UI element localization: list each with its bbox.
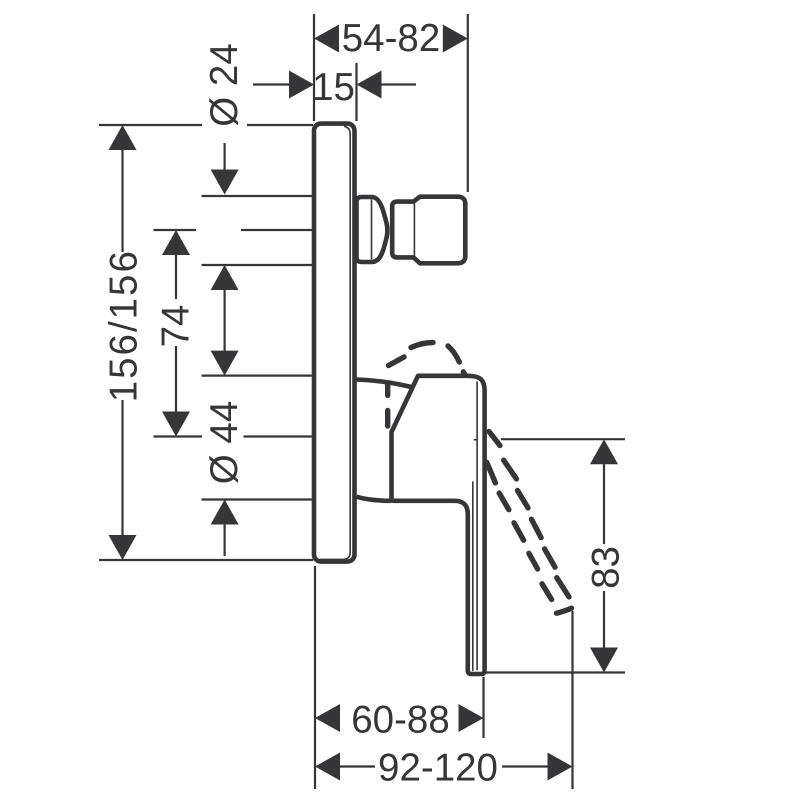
ext line handle center y436.5 [154,435,203,437]
arrow 74 bottom [162,412,190,437]
dim line d24-d44 middle [224,289,226,352]
ext line 83 bottom [485,671,625,673]
cartridge dome top arc [357,380,412,388]
lever face tick [474,439,477,441]
tail 15 left [253,83,290,85]
dim line 74 bottom [175,346,177,413]
diverter knob taper inner line [371,200,373,260]
ext line plate right top [355,63,357,121]
ext line knob top y196 [202,195,314,197]
dim line d44 bottom [224,524,226,557]
ext line knob center y230 [154,229,197,231]
arrow 54-82 left [314,25,339,53]
arrow 92-120 right [548,753,573,781]
diverter knob inner line [413,203,415,256]
dim line 83 bottom [603,591,605,648]
arrow 54-82 right [443,25,468,53]
arrow 15 right [357,71,382,99]
dim line 156 top [121,149,123,252]
dim line 156 bottom [121,400,123,536]
arrow d24 bottom [211,265,239,290]
dim line 74 top [175,254,177,299]
ext line plate left bottom [314,566,316,789]
arrowheads [109,25,619,781]
dashed raised body arc [388,343,572,614]
ext line sleeve bottom y499.5 [202,498,314,500]
arrow 15 left [289,71,314,99]
arrow 60-88 right [459,704,484,732]
ext line handle top y375.6 [202,375,314,377]
arrow 83 top [590,439,618,464]
svg-text:92-120: 92-120 [378,747,498,790]
svg-text:54-82: 54-82 [342,17,440,60]
ext line raised lever tip [571,611,573,789]
ext line plate top y125 [99,124,202,126]
dashed raised body left edge [385,384,390,396]
svg-text:Ø 44: Ø 44 [203,401,246,484]
arrow d24 top [211,170,239,195]
arrow d44 bottom [211,500,239,525]
dimension thin lines [99,14,625,789]
arrow 83 bottom [590,648,618,673]
ext line plate bottom y560 [99,559,313,561]
diverter knob body [392,197,465,264]
tail 15 right [381,83,416,85]
svg-text:83: 83 [585,546,628,589]
svg-text:60-88: 60-88 [351,699,449,742]
ext line knob right [467,14,469,192]
lever front face line 1 [476,382,478,671]
svg-text:156/156: 156/156 [103,249,146,402]
tail 92-120 right [502,765,548,767]
svg-text:15: 15 [312,66,355,109]
diverter knob taper piece [357,197,388,262]
dim line 83 top [603,464,605,545]
arrow 156 bottom [109,535,137,560]
ext line knob bottom y265 [202,264,314,266]
ext line plate left top [313,14,315,121]
dim line d24 top [224,143,226,171]
lever front face line 2 [472,482,474,670]
dashed raised lever front edge [487,462,496,483]
cartridge sleeve bottom arc [357,497,392,501]
arrow d44 top [211,351,239,376]
arrow 156 top [109,125,137,150]
arrow 92-120 left [315,753,340,781]
svg-text:74: 74 [155,305,198,348]
dashed raised lever back edge [489,432,500,446]
svg-text:Ø 24: Ø 24 [203,43,246,126]
wall plate outer [314,124,355,562]
tail 92-120 left [339,765,375,767]
handle body and lever outline [392,376,485,674]
dashed raised lever tip cap [557,608,572,613]
wall plate inner face line [320,126,350,559]
arrow 60-88 left [315,704,340,732]
dimension texts [103,17,628,790]
ext line 83 top [501,438,625,440]
arrow 74 top [162,230,190,255]
ext line lever bottom [482,677,484,738]
